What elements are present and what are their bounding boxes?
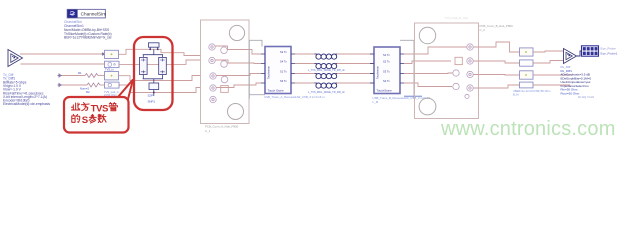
- transmitter Tx_Diff1 symbol: [8, 50, 23, 67]
- svg-text:L_TVS_MDL_WAVE_TR_Diff_dn: L_TVS_MDL_WAVE_TR_Diff_dn: [308, 91, 345, 94]
- TVS series box top: [150, 47, 158, 49]
- callout tail: [112, 80, 133, 108]
- wire J1 pins to S4P1: [215, 46, 261, 54]
- probe box R4: [520, 82, 534, 88]
- J1 pin 1: [209, 44, 215, 50]
- svg-text:BER=1e12*FBBitsMinVal=tx_sel: BER=1e12*FBBitsMinVal=tx_sel: [64, 36, 112, 40]
- junction dot C: [153, 92, 155, 94]
- callout bubble: [64, 97, 129, 133]
- glyph ci: [72, 103, 80, 110]
- ground bus at J1: [248, 40, 250, 99]
- J1 pin 7: [210, 85, 216, 91]
- svg-text:B_M: B_M: [513, 92, 519, 96]
- wire J2 to Rx row4: [474, 85, 520, 88]
- TVS S2P network inside highlight: [140, 43, 167, 96]
- svg-text:www.cntronics.com: www.cntronics.com: [440, 118, 616, 140]
- svg-text:S1 Tx: S1 Tx: [280, 70, 287, 74]
- ground wire blue at J2 bottom: [404, 95, 422, 97]
- TVS rejoin bar: [143, 75, 163, 84]
- wire row3 to R1: [62, 75, 85, 77]
- wire J2 to Rx row3: [474, 74, 520, 77]
- resistor R2: [87, 83, 100, 87]
- junction dot A: [149, 49, 151, 51]
- svg-text:TouchStone: TouchStone: [377, 89, 393, 93]
- J1 pin 6: [221, 76, 228, 83]
- inductor L1: [315, 54, 338, 59]
- Rx parameter text: [561, 65, 595, 99]
- svg-text:TVS_Pads_B_Hub: TVS_Pads_B_Hub: [445, 16, 469, 20]
- J2 pad square: [455, 57, 462, 64]
- J1 mounting hole bottom: [228, 104, 244, 120]
- svg-text:Eye_Probe: Eye_Probe: [601, 47, 617, 51]
- wire S4P2 to J2 row4: [404, 83, 452, 87]
- inductor L2: [315, 64, 338, 69]
- J2 pin b: [453, 83, 459, 89]
- svg-text:Rx EQ 3 kHz: Rx EQ 3 kHz: [578, 95, 595, 99]
- probe box B4: [105, 82, 122, 88]
- J1 mounting hole top: [229, 25, 244, 40]
- wire R4 stub: [534, 84, 571, 86]
- wire R3 stub: [534, 74, 572, 76]
- J2 pin 2: [467, 58, 473, 64]
- svg-text:Touchstone: Touchstone: [268, 66, 271, 79]
- svg-text:TVS_in: TVS_in: [105, 68, 114, 72]
- TVS diode branch D2: [159, 57, 167, 74]
- wire S4P2 to J2 row1: [404, 47, 467, 54]
- PCB connector J2 body: [415, 23, 479, 119]
- glyph de: [72, 114, 80, 122]
- svg-text:C_1: C_1: [205, 129, 211, 133]
- J1 pin 5: [210, 73, 216, 79]
- svg-text:Touch Stone: Touch Stone: [268, 89, 284, 93]
- wire pair4 midsection: [295, 82, 316, 84]
- wire S4P2 to J2 row2: [404, 61, 451, 64]
- wire Rx amp to eye probe: [577, 51, 582, 56]
- wire Tx out N: [21, 63, 105, 65]
- eye probe icon: [582, 46, 599, 56]
- TVS center stem: [143, 49, 163, 57]
- glyph wei: [81, 103, 89, 111]
- J1 pin 3: [209, 57, 215, 63]
- svg-text:S2 Tx: S2 Tx: [383, 60, 390, 64]
- svg-text:S4 Tx: S4 Tx: [383, 79, 390, 83]
- J2 mounting hole top: [419, 27, 435, 43]
- node stub row4: [58, 84, 63, 87]
- ground bus at J2: [400, 40, 414, 99]
- probe box R1: [520, 48, 534, 56]
- wire B3 to connector: [119, 76, 211, 81]
- wire pair1 midsection: [295, 53, 316, 55]
- wire Tx out P: [20, 53, 105, 55]
- PCB connector J1 body: [201, 20, 250, 124]
- wire J2 to Rx row2: [474, 61, 520, 63]
- svg-text:S: S: [82, 115, 89, 126]
- wire pair2 midsection: [295, 63, 316, 65]
- J2 pin a: [453, 70, 459, 76]
- probe box B2: [105, 61, 120, 67]
- probe box B3: [105, 68, 119, 80]
- svg-text:ElectricalModel(s)=de-emphasis: ElectricalModel(s)=de-emphasis: [3, 102, 50, 106]
- svg-text:Rout=50 Ohm: Rout=50 Ohm: [561, 91, 580, 95]
- svg-text:Eye_Probe1: Eye_Probe1: [601, 52, 618, 56]
- wire row4 to R2: [62, 84, 87, 86]
- inductor L3: [315, 74, 338, 79]
- J2 pin small: [465, 94, 469, 98]
- ChannelSim controller U0 box: [67, 9, 106, 18]
- svg-text:S2 Tx: S2 Tx: [280, 50, 287, 54]
- wire R2 to box: [100, 84, 105, 86]
- inductor L4: [315, 83, 338, 88]
- wire R1 to box: [98, 75, 105, 77]
- svg-text:S1 Tx: S1 Tx: [383, 53, 390, 57]
- wire J2 to Rx row1: [474, 42, 520, 52]
- wire B4 to connector: [119, 85, 210, 93]
- S-parameter block S4P1: [261, 47, 295, 94]
- highlight rounded rect (red): [134, 37, 173, 110]
- TVS diode branch D1: [140, 57, 148, 74]
- J2 pin 3: [467, 71, 473, 77]
- J2 mounting hole bottom: [419, 98, 436, 115]
- J1 pin 8: [210, 96, 216, 102]
- svg-text:TVS: TVS: [91, 103, 109, 114]
- svg-text:R1: R1: [78, 71, 82, 75]
- junction dot B: [157, 49, 159, 51]
- wire R1 to Rx amp: [534, 51, 564, 52]
- svg-text:L_TVS_MDL_WAVE_TR_Diff_dn: L_TVS_MDL_WAVE_TR_Diff_dn: [308, 69, 345, 72]
- J1 pin 2: [221, 47, 228, 54]
- resistor R1: [85, 74, 98, 78]
- svg-text:L_M: L_M: [373, 100, 379, 104]
- probe box R2: [520, 60, 534, 66]
- svg-text:S3 Tx: S3 Tx: [383, 70, 390, 74]
- wire B2 to connector: [119, 60, 210, 64]
- J1 pad square: [221, 86, 229, 93]
- svg-text:PCB_Conn_A_Hub_P800: PCB_Conn_A_Hub_P800: [205, 124, 239, 128]
- node stub row3: [58, 74, 63, 77]
- probe box B1: [102, 50, 119, 58]
- TVS series box bottom: [149, 83, 159, 90]
- wire pair3 midsection: [295, 73, 316, 75]
- J2 pin 1: [467, 44, 473, 50]
- svg-text:SNP1: SNP1: [148, 99, 156, 103]
- wire B1 to TVS top: [119, 46, 210, 56]
- svg-text:TVS_pad_in: TVS_pad_in: [104, 90, 119, 94]
- glyph guan: [109, 103, 117, 111]
- svg-text:S4 Tx: S4 Tx: [280, 60, 287, 64]
- svg-text:USB_Trace_A_RenesasHW_USB_3 in: USB_Trace_A_RenesasHW_USB_3 in=0.16 m: [264, 95, 325, 99]
- S-parameter block S4P2: [370, 47, 404, 94]
- J2 pin 4: [467, 85, 473, 91]
- ChannelSim parameter text: [64, 20, 112, 39]
- svg-text:Touchstone: Touchstone: [377, 66, 380, 79]
- svg-text:S2P: S2P: [148, 94, 154, 98]
- wire S4P2 to J2 row3: [404, 72, 453, 75]
- glyph shu: [98, 114, 106, 122]
- svg-text:ChannelSim: ChannelSim: [81, 12, 107, 17]
- svg-text:R2: R2: [86, 90, 90, 94]
- receiver Rx_Diff1 symbol: [564, 49, 577, 64]
- svg-text:VBER=1e-12 M=0.5M=50 Ohm: VBER=1e-12 M=0.5M=50 Ohm: [513, 89, 551, 93]
- J1 pin 4: [221, 61, 228, 68]
- svg-text:C_2: C_2: [480, 28, 486, 32]
- Tx parameter text: [3, 73, 50, 106]
- svg-text:S3 Tx: S3 Tx: [280, 79, 287, 83]
- glyph can: [89, 114, 96, 123]
- callout text line1: [72, 103, 90, 111]
- probe box R3: [520, 71, 534, 79]
- wire R2 to Rx amp: [534, 61, 564, 64]
